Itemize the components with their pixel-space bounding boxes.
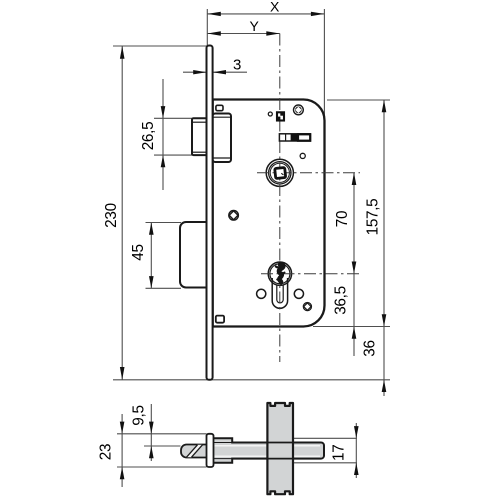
dim 3 right shaft with label line — [213, 71, 247, 73]
ext lines 17 — [294, 437, 357, 439]
latch housing behind plate — [213, 114, 231, 163]
dim line 157,5 + 36 — [383, 100, 385, 396]
cylinder screw hole left — [257, 289, 266, 298]
26,5 outside arrows — [161, 106, 166, 118]
bottom-left square hole — [216, 316, 224, 323]
ext line faceplate bottom (230 / 36) — [113, 379, 390, 381]
svg-text:9,5: 9,5 — [131, 405, 148, 425]
vertical centerline — [279, 34, 281, 363]
latch bolt bottom view — [181, 445, 208, 458]
ext line case top right (157,5) — [327, 99, 390, 101]
ext line faceplate top left (230) — [113, 45, 207, 47]
follower centerline — [257, 172, 360, 174]
23 outside arrows — [120, 422, 125, 434]
vertical cross bar — [267, 403, 293, 494]
cylinder centerline — [261, 273, 360, 275]
dim 3 left shaft — [183, 71, 207, 73]
svg-text:X: X — [270, 0, 280, 15]
dim line 17 — [355, 423, 357, 478]
dim line 70 and 36,5 — [353, 173, 355, 356]
dim line Y — [207, 33, 279, 35]
ext lines 26,5 — [154, 117, 192, 119]
latch bolt front — [192, 118, 207, 155]
stop pin small circle — [268, 112, 272, 116]
lock case — [213, 100, 325, 327]
dim line X — [207, 13, 324, 15]
ext lines 45 — [146, 222, 182, 224]
latch bevel face — [187, 445, 203, 457]
36,5 bottom outside arrow — [352, 327, 357, 339]
case bar outlines — [214, 438, 325, 463]
dim line 23 — [121, 414, 123, 487]
3 arrows — [193, 70, 206, 74]
latch guide hole — [216, 105, 223, 110]
svg-text:Y: Y — [249, 18, 259, 34]
cylinder cam squiggle — [276, 264, 285, 282]
157,5 arrows — [382, 100, 387, 112]
cylinder screw hole right — [294, 289, 303, 298]
ext line 9,5 (latch top) — [144, 445, 181, 447]
cylinder rings — [268, 262, 291, 285]
svg-text:230: 230 — [103, 203, 120, 228]
slider mechanism — [279, 134, 310, 141]
cross bar crossing lines — [266, 443, 294, 459]
faceplate — [207, 46, 213, 380]
230 top / bottom — [120, 46, 125, 59]
70 arrows — [352, 173, 357, 185]
screw top right — [294, 105, 304, 115]
Y left / right — [207, 31, 221, 35]
svg-text:17: 17 — [331, 445, 348, 461]
dim line 9,5 — [150, 404, 152, 461]
flange (faceplate section) — [207, 434, 214, 467]
deadbolt — [180, 222, 207, 288]
svg-text:36: 36 — [362, 340, 379, 356]
svg-text:45: 45 — [130, 244, 147, 260]
dim line 26,5 — [162, 79, 164, 190]
case bar thin section fill — [214, 443, 325, 459]
dim line 45 — [150, 223, 152, 289]
9,5 outside arrows — [149, 422, 154, 434]
bottom view: ext lines 23 — [117, 433, 207, 435]
45 arrows — [149, 223, 154, 235]
ext line case-right up (X right) — [323, 9, 325, 119]
follower small pin — [300, 153, 305, 158]
X left / right — [207, 12, 221, 16]
svg-text:157,5: 157,5 — [365, 199, 382, 236]
lever square component — [277, 112, 284, 120]
screw bottom left — [229, 211, 239, 221]
case bar inner white lines — [215, 446, 321, 456]
svg-text:3: 3 — [233, 57, 241, 74]
follower rings — [266, 159, 293, 186]
ext line case bottom right (157,5 / 36,5 / 36) — [313, 326, 390, 328]
svg-text:36,5: 36,5 — [333, 286, 350, 315]
follower square mark — [281, 173, 283, 175]
follower square hole — [275, 168, 286, 179]
svg-text:70: 70 — [334, 211, 351, 227]
ext line faceplate-left up (X/Y left) — [206, 9, 208, 46]
dim line 230 — [121, 46, 123, 380]
adjuster screw — [303, 303, 311, 311]
latch bevel lines — [187, 445, 203, 457]
case bar tall section fill — [214, 438, 233, 463]
36 bottom arrow — [382, 380, 387, 392]
cylinder body profile — [272, 278, 287, 308]
svg-text:23: 23 — [98, 444, 115, 460]
17 outside arrows — [354, 426, 359, 438]
svg-text:26,5: 26,5 — [140, 122, 157, 151]
